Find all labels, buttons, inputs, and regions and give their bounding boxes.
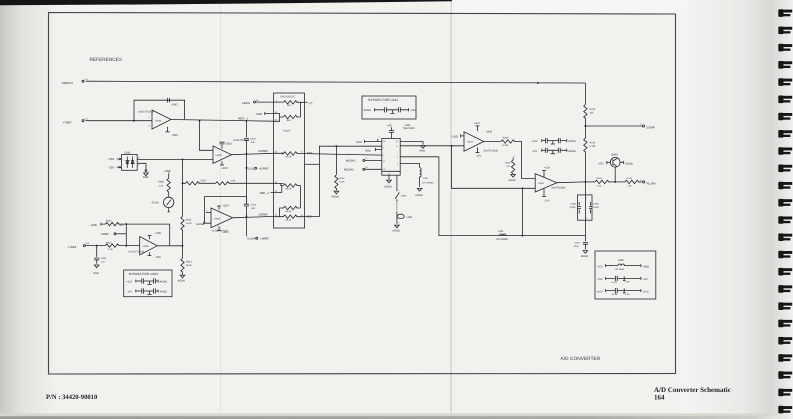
capacitor box C404 C405: [570, 182, 600, 220]
power -15V below U402A: [217, 226, 229, 234]
net ADEN terminal pin 4: [242, 99, 273, 105]
net FLUSH output terminal: [640, 178, 655, 185]
svg-text:L408: L408: [406, 216, 412, 219]
resistor U102 R-C: [274, 152, 305, 159]
svg-text:BYPASS FOR U40X: BYPASS FOR U40X: [129, 272, 159, 276]
ground below VR401: [137, 163, 148, 179]
resistor R408: [158, 178, 170, 197]
net +35B stub: [164, 170, 171, 178]
svg-text:-15V: -15V: [155, 256, 161, 259]
svg-text:164: 164: [654, 393, 665, 401]
svg-text:BYPASS FOR U411: BYPASS FOR U411: [368, 98, 398, 102]
svg-text:2: 2: [206, 209, 207, 212]
svg-text:C405: C405: [593, 202, 599, 205]
svg-text:-15V: -15V: [108, 165, 114, 169]
net 34REFH terminal: [62, 78, 88, 85]
wire riser from -input line to L403 line: [522, 188, 524, 235]
diode CR4A: [152, 197, 174, 212]
svg-text:56.3K: 56.3K: [286, 155, 292, 158]
svg-text:.47uF: .47uF: [573, 245, 579, 248]
svg-text:GND: GND: [452, 136, 458, 139]
svg-text:Q403: Q403: [611, 153, 618, 156]
wire +7REF to U408 input: [86, 120, 153, 122]
svg-text:+15V: +15V: [108, 157, 115, 161]
bypass row +15V C444: [126, 278, 167, 284]
svg-text:2: 2: [640, 178, 641, 181]
junction inside U102: [282, 152, 284, 154]
ground below R443: [178, 275, 186, 282]
ground below R419: [509, 174, 516, 182]
wire rail to L403 junction: [584, 220, 586, 235]
power +15V above U407: [148, 232, 162, 239]
svg-text:+15V: +15V: [544, 167, 550, 170]
svg-text:MODA1: MODA1: [346, 160, 356, 163]
ground below L407: [415, 188, 423, 197]
svg-text:R441: R441: [106, 220, 112, 223]
svg-text:AGND: AGND: [364, 109, 372, 112]
svg-text:AGND: AGND: [331, 196, 339, 199]
comparator U403: [464, 132, 484, 151]
svg-text:AGND: AGND: [415, 194, 423, 197]
svg-text:21: 21: [301, 214, 303, 217]
svg-text:R409: R409: [503, 136, 509, 139]
svg-text:+15V: +15V: [126, 280, 132, 283]
svg-text:2L1: 2L1: [85, 78, 88, 81]
resistor R416: [335, 146, 346, 190]
junction +7REF at C409: [96, 245, 98, 247]
bypass row C446 inside U411 box: [364, 107, 417, 113]
svg-text:-15V: -15V: [544, 199, 550, 202]
capacitor / GND above U406: [219, 139, 248, 148]
wire REF from pin 27 to U411: [305, 154, 382, 156]
svg-text:+10REF: +10REF: [257, 149, 268, 153]
svg-text:1: 1: [398, 189, 399, 192]
inductor L407 chain: [400, 164, 434, 187]
junction -input line at L403 riser: [522, 187, 524, 189]
power -15V below U403: [476, 147, 482, 157]
wire U407 output to R442 rail: [157, 245, 182, 247]
svg-text:10: 10: [383, 168, 385, 171]
svg-text:27: 27: [301, 151, 303, 154]
svg-text:3L1: 3L1: [85, 118, 88, 121]
resistor U102 R-D: [274, 183, 301, 208]
svg-text:A/D Converter Schematic: A/D Converter Schematic: [654, 386, 731, 394]
op-amp U408: [138, 110, 171, 129]
svg-text:R419: R419: [505, 162, 511, 165]
svg-text:ALM711SMC: ALM711SMC: [551, 187, 566, 190]
svg-text:VCC: VCC: [598, 163, 604, 166]
svg-text:R408: R408: [158, 181, 164, 184]
power -15V below U407: [148, 252, 162, 258]
svg-text:1: 1: [514, 155, 515, 158]
svg-text:2: 2: [586, 217, 587, 220]
schematic sheet border frame: [49, 13, 676, 375]
junction Q403 emitter at FLUSH line: [614, 181, 616, 183]
svg-text:.1uF: .1uF: [250, 207, 255, 210]
op-amp U408 feedback loop: [134, 100, 185, 121]
svg-text:AGND: AGND: [196, 223, 204, 226]
rail R442/R443 vertical: [182, 159, 184, 274]
net MODA1 terminal: [346, 157, 382, 163]
junction REF+.2 at C410 branch: [245, 120, 247, 122]
resistor R443: [181, 258, 193, 272]
svg-text:+5V: +5V: [387, 124, 392, 127]
svg-text:2: 2: [138, 164, 139, 167]
svg-text:2N41: 2N41: [401, 194, 407, 197]
net MODA0 terminal: [344, 166, 382, 172]
svg-text:-10REF: -10REF: [259, 238, 269, 241]
svg-text:+10REF: +10REF: [258, 167, 268, 170]
svg-text:L409: L409: [618, 259, 624, 262]
net +7REF lower terminal: [68, 242, 90, 249]
resistor R442: [181, 216, 193, 230]
svg-text:+15V: +15V: [221, 167, 228, 170]
resistor U102 R-A: [274, 101, 305, 107]
wire REF+.2 branch to U406 -input: [200, 121, 214, 151]
svg-text:14: 14: [396, 145, 398, 148]
wire U402 output to FLUSH rail: [557, 181, 586, 184]
svg-text:AGND: AGND: [581, 255, 589, 258]
svg-text:+7REF: +7REF: [68, 246, 77, 249]
ground at U403 -input: [452, 134, 464, 138]
svg-text:+15V: +15V: [474, 122, 480, 125]
svg-text:R410: R410: [590, 108, 596, 111]
resistor R417 line to PVD pin 24: [183, 179, 274, 185]
svg-text:C404: C404: [571, 202, 577, 205]
resistor R414: [615, 177, 642, 187]
pin numbers U102 left: [275, 100, 278, 217]
analog switch U411: [382, 138, 400, 175]
ground below R416: [331, 191, 339, 198]
net COMP output terminal: [585, 122, 654, 129]
junction at 5L3G tap: [245, 167, 247, 169]
svg-text:GND: GND: [365, 149, 371, 152]
svg-text:5: 5: [383, 154, 384, 157]
ground below L408: [392, 225, 400, 232]
svg-text:+15V: +15V: [642, 290, 648, 293]
svg-text:VCC: VCC: [597, 265, 603, 268]
svg-text:P/N : 34420-90010: P/N : 34420-90010: [46, 394, 98, 401]
junction VR401 line at R442 rail: [182, 158, 184, 160]
inductor L403: [496, 230, 509, 241]
svg-text:GND: GND: [171, 104, 177, 107]
resistor R415: [585, 177, 615, 187]
wire U411 pin 14 to comparator U403: [400, 145, 464, 147]
svg-text:+15V: +15V: [410, 109, 416, 112]
inductor L408: [397, 201, 413, 224]
junction +7REF feedback tap: [133, 120, 135, 122]
resistor R413: [584, 126, 596, 182]
junction R442 rail at U407 output: [182, 245, 184, 247]
svg-text:ADEN: ADEN: [242, 102, 250, 105]
svg-text:36K: 36K: [286, 119, 290, 122]
junction FLUSH line at rail: [584, 181, 586, 183]
transistor Q403: [610, 153, 620, 182]
svg-text:GND: GND: [419, 149, 425, 152]
svg-text:.1uF: .1uF: [250, 141, 255, 144]
svg-text:U403: U403: [467, 141, 473, 144]
wire VR401 to U406 +input: [137, 158, 213, 160]
label U411 74HC4053: [403, 124, 415, 130]
svg-text:GND: GND: [356, 141, 362, 144]
ground at U411 pin 6: [365, 148, 382, 152]
svg-text:+35B: +35B: [90, 224, 97, 227]
op-amp U407: [140, 237, 158, 256]
svg-text:C409: C409: [101, 257, 107, 260]
svg-text:74HC4053: 74HC4053: [403, 127, 415, 130]
bypass box for U407: [124, 270, 172, 297]
svg-text:34REFH: 34REFH: [62, 81, 73, 85]
wire U411 pin 2 via riser to L403 line: [400, 157, 585, 236]
svg-text:+7REF: +7REF: [63, 120, 73, 124]
svg-text:ULN2171ALM: ULN2171ALM: [138, 111, 154, 114]
capacitor C407: [573, 236, 588, 250]
net +35BP terminal: [100, 233, 126, 236]
svg-text:R413: R413: [590, 141, 596, 144]
svg-text:1: 1: [586, 197, 587, 200]
net +7REF terminal: [63, 118, 88, 125]
tap 5L1AA -10REF: [246, 216, 269, 240]
wire 34REFH bus to right rail: [86, 81, 586, 83]
svg-text:56.3K: 56.3K: [286, 210, 292, 213]
svg-text:1.00: 1.00: [108, 248, 113, 251]
svg-text:GND: GND: [93, 272, 99, 275]
svg-text:L407: L407: [423, 177, 429, 180]
power +15V at U408: [166, 127, 179, 137]
spiral binding: [778, 9, 792, 413]
ground at U102 pin 28: [256, 112, 273, 116]
power +15V below U406: [220, 161, 228, 170]
svg-text:3.3V: 3.3V: [625, 281, 630, 284]
svg-text:270pF: 270pF: [593, 206, 600, 209]
ground at U402A -input: [196, 222, 211, 226]
svg-text:-15V: -15V: [532, 150, 538, 153]
bypass row -15V C449: [532, 148, 576, 154]
power +15V above U402A: [217, 205, 229, 210]
ground at U411 pin 16: [356, 136, 382, 144]
svg-text:GND: GND: [226, 142, 232, 145]
wire 5Z5 from pin 21 up to U411: [305, 146, 382, 216]
junction on 34REFH bus: [537, 82, 539, 84]
svg-text:+35B: +35B: [164, 170, 171, 173]
op-amp U406: [213, 146, 232, 164]
svg-text:+15V: +15V: [155, 232, 162, 235]
svg-text:U40B: U40B: [143, 245, 149, 248]
svg-text:+(2): +(2): [308, 102, 313, 105]
svg-text:5L3G: 5L3G: [247, 167, 254, 170]
filter box L409: [595, 251, 656, 299]
svg-text:AGND: AGND: [509, 179, 516, 182]
svg-text:A/D CONVERTER: A/D CONVERTER: [561, 356, 601, 361]
svg-text:AGND: AGND: [568, 140, 576, 143]
junction R417 line at R442 rail: [182, 182, 184, 184]
junction at U407 input node: [125, 245, 127, 247]
bypass row +15V C448: [531, 138, 576, 144]
resistor U102 R-F: [274, 215, 305, 222]
svg-text:171 OHMS: 171 OHMS: [422, 181, 434, 184]
wire U408 output REF+.2 to PVD pin 26: [171, 120, 274, 122]
svg-text:+35BP: +35BP: [100, 233, 108, 236]
wire riser to U402 -input: [452, 146, 536, 189]
stub U402A +input pin 2: [206, 209, 211, 212]
svg-text:AGND: AGND: [392, 230, 400, 233]
svg-text:R442: R442: [186, 218, 192, 221]
svg-text:U40B: U40B: [214, 217, 220, 220]
svg-text:125 OHMS: 125 OHMS: [496, 238, 509, 241]
capacitor +5V above U411: [387, 124, 394, 138]
transistor Q402 switch chain: [395, 175, 407, 201]
svg-text:R417: R417: [201, 179, 208, 182]
svg-text:C407: C407: [575, 241, 581, 244]
wire +35B to U407 feedback: [119, 224, 170, 246]
svg-text:+15V: +15V: [531, 140, 537, 143]
svg-text:270pF: 270pF: [570, 206, 577, 209]
svg-text:ULN2171ALM: ULN2171ALM: [212, 230, 228, 233]
wire stub at U102 right y164: [305, 163, 320, 165]
svg-text:U40B: U40B: [155, 120, 161, 123]
svg-text:ALM711SMC: ALM711SMC: [484, 150, 499, 153]
svg-text:-15V: -15V: [597, 278, 603, 281]
junction -10REF at 5L1AA tap: [245, 215, 247, 217]
junction L403 line at U402 riser: [522, 235, 524, 237]
svg-text:R414: R414: [627, 177, 633, 180]
capacitor C410: [244, 121, 257, 154]
resistor U102 R-B: [274, 102, 301, 122]
resistor R440: [85, 241, 139, 251]
wire U402A feedback loop: [205, 197, 247, 224]
row +15V C443 zener VR: [596, 288, 648, 296]
comparator U402: [535, 174, 557, 192]
net -15V arrow into VR401: [108, 165, 121, 169]
svg-text:REFERENCES: REFERENCES: [90, 57, 123, 62]
svg-text:+15V: +15V: [222, 205, 229, 208]
svg-text:COMP: COMP: [646, 125, 655, 129]
ground at U411 right pin 15: [400, 142, 425, 153]
junction +35B line at vertical: [125, 223, 127, 225]
svg-text:7 8: 7 8: [388, 172, 391, 175]
svg-text:36.5k: 36.5k: [186, 264, 193, 267]
junction +10REF at C410 rail: [245, 153, 247, 155]
power -15V below U402: [542, 188, 550, 202]
bypass box for U411: [362, 96, 416, 119]
resistor R409: [484, 136, 515, 147]
svg-text:PVD U102-C: PVD U102-C: [280, 95, 295, 98]
svg-text:AGND: AGND: [384, 185, 392, 188]
svg-text:28.3K: 28.3K: [286, 219, 292, 222]
svg-text:AGND: AGND: [178, 280, 186, 283]
svg-text:56.3K: 56.3K: [286, 187, 292, 190]
svg-text:.1uF: .1uF: [101, 260, 106, 263]
svg-text:1.0k: 1.0k: [230, 179, 235, 182]
svg-text:10.2k: 10.2k: [339, 181, 345, 184]
bypass row -15V C445: [127, 288, 168, 294]
svg-text:GND: GND: [256, 113, 262, 116]
svg-text:ULN2171ALM: ULN2171ALM: [128, 251, 144, 254]
svg-text:2: 2: [149, 116, 150, 119]
row VCC L409 inductor: [597, 264, 649, 271]
svg-text:AGND: AGND: [625, 163, 633, 166]
svg-text:5L1AA: 5L1AA: [247, 238, 255, 241]
scan fold line center: [450, 0, 451, 419]
wire U406 output +10REF to PVD pin 26: [232, 153, 274, 154]
svg-text:C442: C442: [612, 281, 618, 284]
svg-text:U102A: U102A: [283, 130, 291, 133]
ground below C409: [93, 265, 99, 275]
net +35B terminal with resistor R441: [90, 220, 124, 227]
scan crease left: [220, 0, 221, 419]
svg-text:-10REF: -10REF: [258, 213, 268, 217]
svg-text:1: 1: [379, 136, 380, 139]
svg-text:+15V: +15V: [596, 290, 602, 293]
pin numbers U102 right: [301, 151, 303, 217]
power +15V above U403: [474, 122, 480, 131]
resistor R410: [584, 83, 596, 126]
top scan black bar: [0, 0, 452, 5]
junction COMP tap: [584, 125, 586, 127]
svg-text:4.3V: 4.3V: [625, 293, 630, 296]
svg-text:6.19k: 6.19k: [502, 144, 509, 147]
svg-text:125 OHM: 125 OHM: [615, 268, 625, 271]
svg-text:11: 11: [383, 159, 385, 162]
capacitor C441 on U402A feedback: [244, 203, 257, 216]
svg-text:AGND: AGND: [568, 150, 576, 153]
resistor network U102 box: [274, 93, 305, 228]
junction comparator line at riser: [451, 145, 453, 147]
svg-text:MODA0: MODA0: [344, 168, 354, 171]
svg-text:2: 2: [398, 221, 399, 224]
bottom scan shadow: [0, 414, 770, 417]
svg-text:R415: R415: [597, 177, 603, 180]
svg-text:R416: R416: [339, 177, 345, 180]
svg-text:GND: GND: [143, 176, 149, 179]
svg-text:C443: C443: [612, 293, 618, 296]
svg-text:AGND: AGND: [160, 290, 168, 293]
junction REF+.2 at U406 branch: [199, 120, 201, 122]
svg-text:CR4A: CR4A: [152, 202, 159, 205]
svg-text:1: 1: [397, 162, 398, 165]
capacitor C409: [94, 246, 107, 264]
junction 5Z5 line at R416: [335, 145, 337, 147]
svg-text:U403: U403: [486, 131, 493, 134]
capacitor C412 on U408 feedback: [167, 98, 177, 107]
svg-text:6: 6: [383, 146, 384, 149]
svg-text:+15V: +15V: [171, 133, 178, 137]
power +15V above U402: [542, 167, 551, 178]
net VCC at Q403: [598, 161, 610, 166]
ground at Q403: [620, 161, 633, 166]
ground below C407: [581, 251, 589, 259]
svg-text:+5BB: +5BB: [642, 265, 649, 268]
svg-text:6.19k: 6.19k: [590, 145, 597, 148]
svg-text:L403: L403: [498, 230, 504, 233]
svg-text:10.2k: 10.2k: [186, 222, 193, 225]
svg-text:2: 2: [397, 156, 398, 159]
wire vertical +35B to +7REF row: [125, 224, 127, 246]
svg-text:-15V: -15V: [127, 290, 133, 293]
resistor U102 R-E: [280, 206, 301, 216]
resistor R419 to ground: [505, 155, 515, 174]
tap 5L3G +10REF: [246, 154, 268, 204]
svg-text:U40B: U40B: [216, 154, 222, 157]
net +15V arrow into VR401: [108, 157, 121, 161]
svg-text:REF+. 2: REF+. 2: [238, 118, 249, 121]
svg-text:FLUSH: FLUSH: [646, 181, 655, 185]
op-amp U402A: [211, 208, 233, 228]
svg-text:AGND: AGND: [160, 280, 168, 283]
stub +(2) at U102 top right: [305, 102, 313, 105]
svg-text:-15V: -15V: [642, 278, 648, 281]
wire U402A output -10REF to PVD pin 23: [233, 216, 274, 217]
